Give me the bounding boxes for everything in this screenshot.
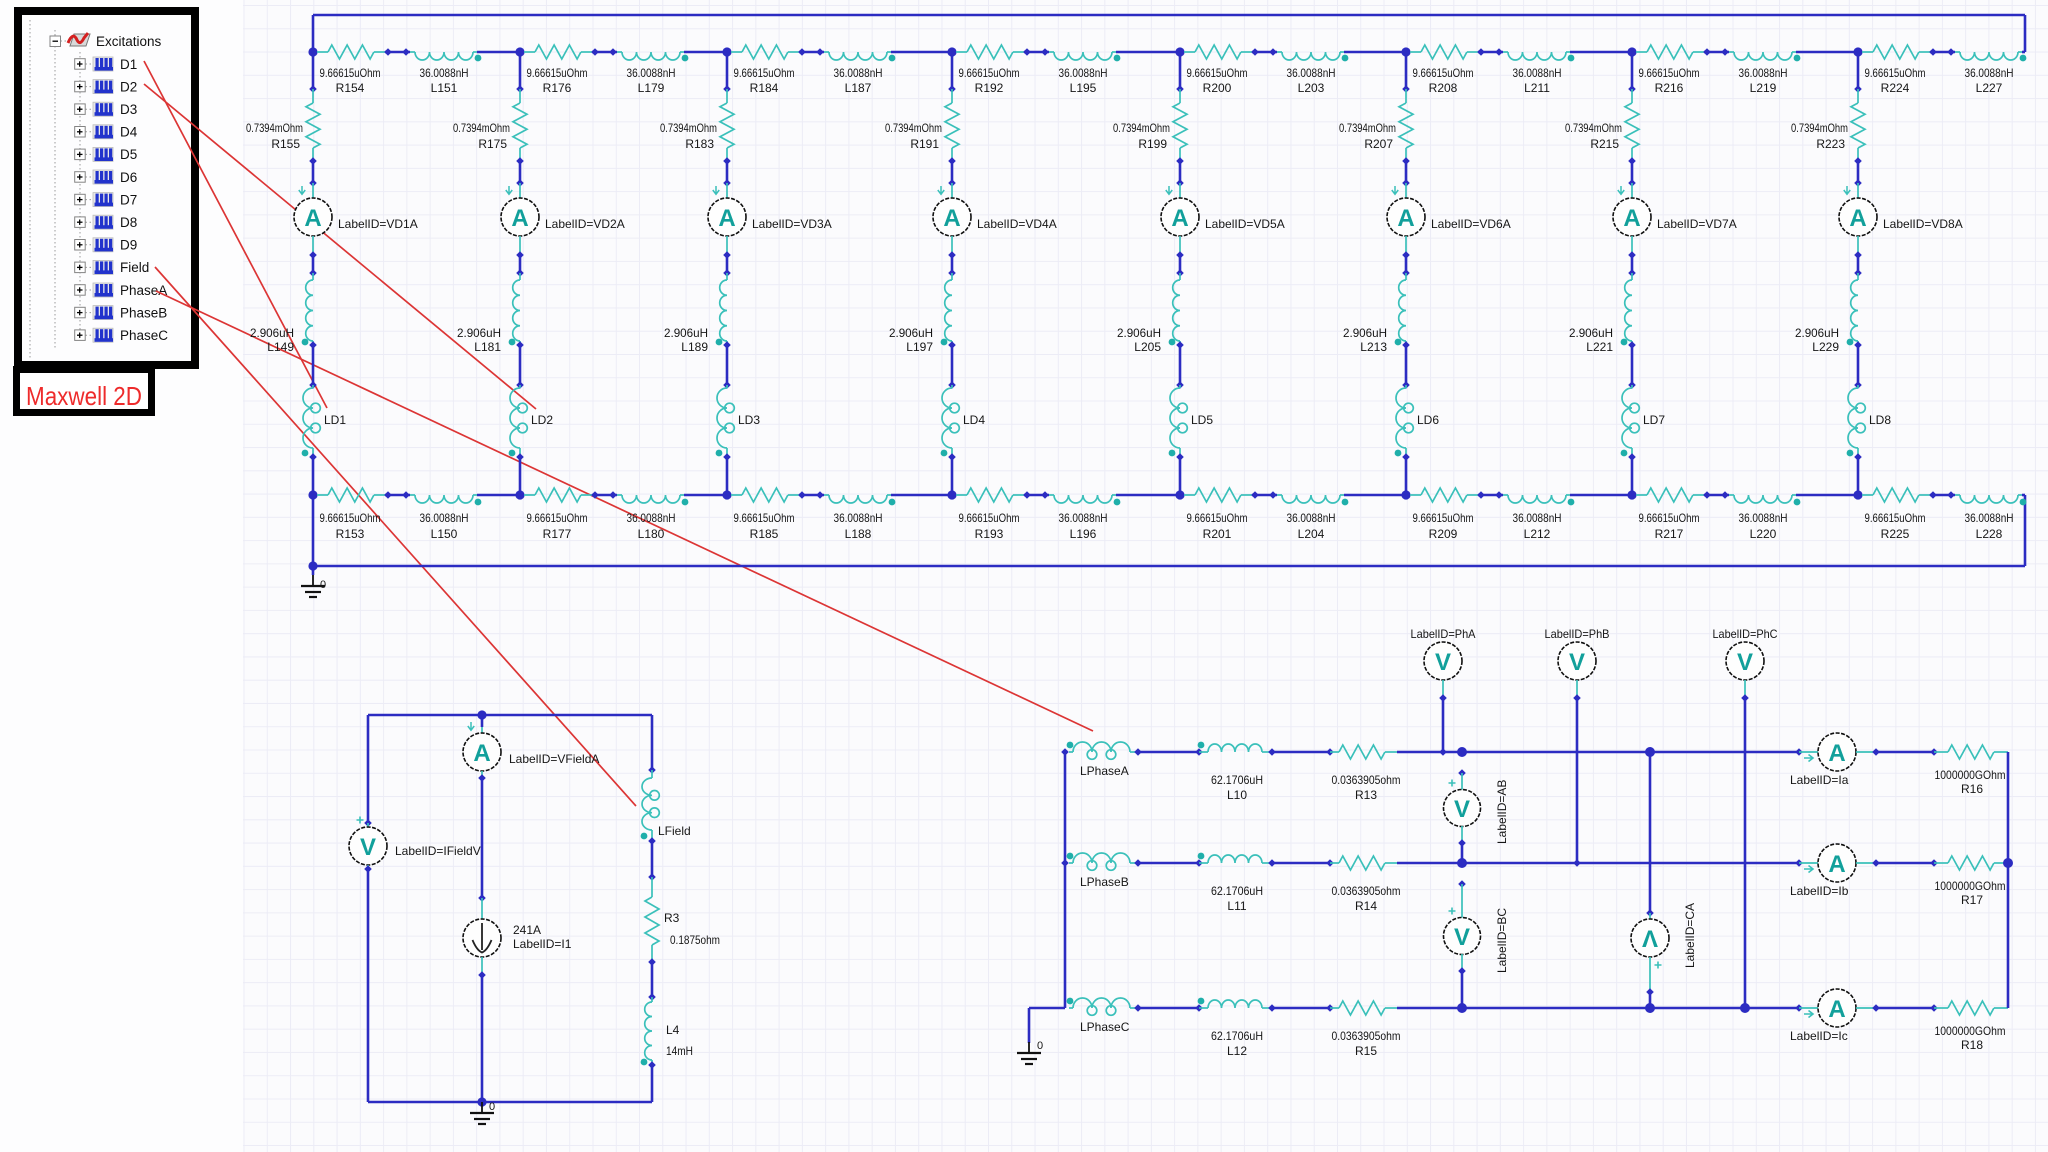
inductor L213 — [1399, 280, 1406, 341]
wire column 7 vertical upper — [1631, 52, 1634, 89]
resistor R18 — [1948, 1001, 1994, 1015]
svg-text:L212: L212 — [1524, 527, 1551, 541]
wire row LPhaseB segment 3 — [1397, 862, 1799, 865]
wire column 5 mid — [1176, 341, 1184, 349]
wire row LPhaseA segment 3 — [1397, 751, 1799, 754]
svg-text:LabelID=VD8A: LabelID=VD8A — [1883, 217, 1963, 231]
voltmeter CA — [1631, 919, 1669, 957]
svg-text:R3: R3 — [664, 911, 680, 925]
inductor LPhaseB — [1069, 862, 1073, 864]
svg-text:LabelID=PhB: LabelID=PhB — [1545, 627, 1610, 641]
svg-text:A: A — [1828, 740, 1845, 767]
wire column 6 vertical upper — [1405, 52, 1408, 89]
svg-text:D7: D7 — [120, 192, 137, 207]
ammeter VD6A — [1392, 186, 1398, 194]
svg-text:9.66615uOhm: 9.66615uOhm — [959, 66, 1020, 80]
resistor R3 0.1875ohm — [645, 897, 659, 945]
resistor R193 — [967, 488, 1013, 502]
wire bottom row col8 — [1862, 494, 1873, 496]
wire top row col1 — [317, 51, 328, 53]
svg-text:D9: D9 — [120, 238, 137, 253]
svg-text:LPhaseB: LPhaseB — [1080, 875, 1129, 889]
inductor LD8 — [1848, 388, 1858, 448]
wire row LPhaseB segment 2 — [1268, 859, 1276, 867]
resistor R177 — [535, 488, 581, 502]
resistor R192 — [967, 45, 1013, 59]
inductor L150 — [415, 495, 473, 503]
svg-text:D8: D8 — [120, 215, 137, 230]
wire column 3 lower — [726, 448, 728, 457]
svg-text:36.0088nH: 36.0088nH — [1739, 511, 1788, 525]
svg-text:LabelID=AB: LabelID=AB — [1495, 780, 1509, 844]
resistor R215 — [1625, 103, 1639, 148]
svg-text:R201: R201 — [1203, 527, 1232, 541]
resistor R175 — [513, 103, 527, 148]
tree item D3 — [75, 102, 138, 117]
ammeter VD8A — [1844, 186, 1850, 194]
ground 0 (top circuit) — [308, 561, 317, 570]
node CA top junction — [1645, 747, 1655, 757]
inductor L12 — [1199, 1007, 1208, 1009]
svg-text:PhaseA: PhaseA — [120, 283, 167, 298]
tree item Field — [75, 260, 150, 275]
svg-text:LabelID=VD3A: LabelID=VD3A — [752, 217, 832, 231]
svg-text:0.7394mOhm: 0.7394mOhm — [453, 121, 510, 135]
svg-text:LD1: LD1 — [324, 413, 346, 427]
svg-text:R183: R183 — [685, 137, 714, 151]
svg-text:L187: L187 — [845, 81, 872, 95]
svg-text:LabelID=Ic: LabelID=Ic — [1790, 1029, 1848, 1043]
wire column 6 below ammeter — [1405, 236, 1407, 255]
resistor R208 — [1421, 45, 1467, 59]
resistor R17 — [1948, 856, 1994, 870]
svg-text:L221: L221 — [1586, 340, 1613, 354]
svg-text:62.1706uH: 62.1706uH — [1211, 1029, 1263, 1043]
tree item D7 — [75, 192, 138, 207]
svg-text:1000000GOhm: 1000000GOhm — [1935, 1024, 2006, 1038]
svg-text:L188: L188 — [845, 527, 872, 541]
wire column 2 vertical upper — [519, 52, 522, 89]
svg-text:LabelID=VD7A: LabelID=VD7A — [1657, 217, 1737, 231]
svg-text:PhaseC: PhaseC — [120, 328, 168, 343]
tree guide lines — [29, 20, 31, 358]
svg-text:36.0088nH: 36.0088nH — [627, 511, 676, 525]
wire field center branch — [481, 771, 483, 776]
svg-text:2.906uH: 2.906uH — [1343, 326, 1387, 340]
svg-text:R154: R154 — [336, 81, 365, 95]
svg-text:L189: L189 — [681, 340, 708, 354]
svg-text:0.7394mOhm: 0.7394mOhm — [1113, 121, 1170, 135]
wire PhC vertical — [1744, 680, 1746, 696]
wire column 8 vertical upper — [1857, 52, 1860, 89]
node top junction col1 — [308, 47, 317, 56]
svg-text:LD8: LD8 — [1869, 413, 1891, 427]
svg-text:V: V — [1454, 924, 1470, 951]
inductor L220 — [1734, 495, 1792, 503]
svg-text:36.0088nH: 36.0088nH — [1059, 66, 1108, 80]
node top junction col2 — [515, 47, 524, 56]
svg-text:Maxwell 2D: Maxwell 2D — [26, 381, 142, 411]
svg-text:R184: R184 — [750, 81, 779, 95]
svg-text:LD7: LD7 — [1643, 413, 1665, 427]
wire three-phase left vertical — [1064, 752, 1067, 1008]
resistor R154 — [328, 45, 374, 59]
svg-text:R193: R193 — [975, 527, 1004, 541]
svg-text:2.906uH: 2.906uH — [1569, 326, 1613, 340]
svg-text:9.66615uOhm: 9.66615uOhm — [1413, 66, 1474, 80]
svg-text:D5: D5 — [120, 147, 137, 162]
resistor R185 — [742, 488, 788, 502]
inductor LD5 — [1170, 388, 1180, 448]
inductor L197 — [945, 280, 952, 341]
svg-text:L219: L219 — [1750, 81, 1777, 95]
wire to three-phase ground — [1029, 1007, 1065, 1010]
wire column 3 below ammeter — [726, 236, 728, 255]
svg-text:36.0088nH: 36.0088nH — [1513, 511, 1562, 525]
svg-text:D1: D1 — [120, 57, 137, 72]
wire column 3 mid — [723, 341, 731, 349]
svg-text:L205: L205 — [1134, 340, 1161, 354]
svg-text:LabelID=Ib: LabelID=Ib — [1790, 884, 1849, 898]
svg-text:2.906uH: 2.906uH — [1117, 326, 1161, 340]
wire top row col7 — [1636, 51, 1647, 53]
svg-text:0.7394mOhm: 0.7394mOhm — [246, 121, 303, 135]
resistor R183 — [720, 103, 734, 148]
svg-text:0.7394mOhm: 0.7394mOhm — [1565, 121, 1622, 135]
tree item D2 — [75, 79, 138, 94]
svg-text:0: 0 — [320, 579, 326, 591]
inductor L227 — [1960, 52, 2018, 60]
tree item PhaseB — [75, 305, 168, 320]
svg-text:L12: L12 — [1227, 1044, 1247, 1058]
wire row LPhaseC segment 3 — [1397, 1007, 1799, 1010]
wire column 8 lower — [1857, 448, 1859, 457]
wire column 8 mid — [1854, 341, 1862, 349]
node top junction col8 — [1853, 47, 1862, 56]
svg-text:R14: R14 — [1355, 899, 1377, 913]
svg-text:LabelID=VD5A: LabelID=VD5A — [1205, 217, 1285, 231]
inductor LD2 — [510, 388, 520, 448]
svg-text:9.66615uOhm: 9.66615uOhm — [1865, 511, 1926, 525]
tree item PhaseC — [75, 328, 169, 343]
svg-text:L4: L4 — [666, 1023, 680, 1037]
svg-text:LD2: LD2 — [531, 413, 553, 427]
svg-text:R16: R16 — [1961, 782, 1983, 796]
wire column 5 lower — [1179, 448, 1181, 457]
node bottom junction col7 — [1627, 490, 1636, 499]
svg-text:LD4: LD4 — [963, 413, 985, 427]
svg-text:D3: D3 — [120, 102, 137, 117]
wire CA to C row — [1649, 992, 1652, 1008]
svg-text:R215: R215 — [1590, 137, 1619, 151]
resistor R153 — [328, 488, 374, 502]
annotation line D2 to LD2 — [144, 84, 536, 409]
svg-text:0: 0 — [1037, 1040, 1043, 1052]
svg-text:LabelID=I1: LabelID=I1 — [513, 937, 572, 951]
svg-text:L196: L196 — [1070, 527, 1097, 541]
wire bottom row col7 — [1636, 494, 1647, 496]
svg-text:LD3: LD3 — [738, 413, 760, 427]
wire column 1 below ammeter — [312, 236, 314, 255]
wire row LPhaseC segment 4 — [1856, 1007, 1876, 1009]
svg-text:R217: R217 — [1655, 527, 1684, 541]
svg-text:LabelID=VD6A: LabelID=VD6A — [1431, 217, 1511, 231]
ammeter Ic — [1804, 1011, 1813, 1018]
wire row LPhaseB segment 4 — [1856, 862, 1876, 864]
svg-text:LabelID=VD1A: LabelID=VD1A — [338, 217, 418, 231]
wire bottom row col6 — [1410, 494, 1421, 496]
wire field circuit frame — [368, 714, 652, 717]
svg-text:LD5: LD5 — [1191, 413, 1213, 427]
tree panel border — [18, 11, 195, 365]
inductor L189 — [720, 280, 727, 341]
inductor L11 — [1199, 862, 1208, 864]
svg-text:V: V — [1569, 649, 1585, 676]
wire between R3 and L4 — [648, 958, 656, 966]
wire bottom row col1 — [317, 494, 328, 496]
svg-text:V: V — [1435, 649, 1451, 676]
svg-text:R175: R175 — [478, 137, 507, 151]
svg-text:1000000GOhm: 1000000GOhm — [1935, 768, 2006, 782]
svg-text:9.66615uOhm: 9.66615uOhm — [1639, 511, 1700, 525]
ammeter VD3A — [713, 186, 719, 194]
svg-text:A: A — [718, 205, 735, 232]
inductor LD4 — [942, 388, 952, 448]
wire PhB vertical — [1576, 680, 1578, 696]
svg-text:Λ: Λ — [1642, 926, 1658, 953]
wire row LPhaseA segment 4 — [1856, 751, 1876, 753]
svg-text:R216: R216 — [1655, 81, 1684, 95]
svg-text:V: V — [1454, 796, 1470, 823]
node bottom junction col3 — [722, 490, 731, 499]
svg-text:V: V — [1737, 649, 1753, 676]
resistor R13 — [1339, 745, 1385, 759]
svg-text:62.1706uH: 62.1706uH — [1211, 884, 1263, 898]
svg-text:LabelID=VD4A: LabelID=VD4A — [977, 217, 1057, 231]
wire row LPhaseA segment 1 — [1134, 748, 1142, 756]
resistor R209 — [1421, 488, 1467, 502]
inductor L187 — [829, 52, 887, 60]
svg-text:LabelID=IFieldV: LabelID=IFieldV — [395, 844, 481, 858]
wire column 4 lower — [951, 448, 953, 457]
svg-text:9.66615uOhm: 9.66615uOhm — [1639, 66, 1700, 80]
inductor L204 — [1282, 495, 1340, 503]
svg-text:L10: L10 — [1227, 788, 1247, 802]
ammeter VD5A — [1166, 186, 1172, 194]
wire column 8 below ammeter — [1857, 236, 1859, 255]
wire BC to C row — [1461, 971, 1464, 1008]
svg-text:36.0088nH: 36.0088nH — [1059, 511, 1108, 525]
node field bottom junction — [477, 1097, 486, 1106]
svg-text:LabelID=CA: LabelID=CA — [1683, 903, 1697, 968]
inductor L179 — [622, 52, 680, 60]
svg-text:R209: R209 — [1429, 527, 1458, 541]
svg-text:R224: R224 — [1881, 81, 1910, 95]
svg-text:36.0088nH: 36.0088nH — [1965, 511, 2014, 525]
wire PhA vertical — [1442, 680, 1444, 696]
svg-text:L227: L227 — [1976, 81, 2003, 95]
svg-text:D4: D4 — [120, 125, 138, 140]
wire column 5 below ammeter — [1179, 236, 1181, 255]
resistor R224 — [1873, 45, 1919, 59]
inductor L205 — [1173, 280, 1180, 341]
ammeter VD2A — [506, 186, 512, 194]
svg-text:36.0088nH: 36.0088nH — [627, 66, 676, 80]
ammeter VD1A — [299, 186, 305, 194]
inductor L219 — [1734, 52, 1792, 60]
svg-text:R185: R185 — [750, 527, 779, 541]
svg-text:A: A — [511, 205, 528, 232]
svg-text:R18: R18 — [1961, 1038, 1983, 1052]
wire top row col5 — [1184, 51, 1195, 53]
svg-text:R207: R207 — [1364, 137, 1393, 151]
svg-text:V: V — [360, 834, 376, 861]
svg-text:241A: 241A — [513, 923, 541, 937]
svg-text:L179: L179 — [638, 81, 665, 95]
resistor R207 — [1399, 103, 1413, 148]
inductor L228 — [1960, 495, 2018, 503]
svg-text:0.0363905ohm: 0.0363905ohm — [1332, 1029, 1401, 1043]
tree item Excitations — [50, 36, 61, 47]
wire column 6 lower — [1405, 448, 1407, 457]
svg-text:LabelID=BC: LabelID=BC — [1495, 908, 1509, 973]
resistor R217 — [1647, 488, 1693, 502]
inductor L211 — [1508, 52, 1566, 60]
svg-text:0.1875ohm: 0.1875ohm — [670, 933, 720, 947]
svg-text:R13: R13 — [1355, 788, 1377, 802]
current source I1 241A — [463, 919, 501, 957]
svg-text:62.1706uH: 62.1706uH — [1211, 773, 1263, 787]
inductor L180 — [622, 495, 680, 503]
svg-text:L220: L220 — [1750, 527, 1777, 541]
inductor L149 — [306, 280, 313, 341]
svg-text:L203: L203 — [1298, 81, 1325, 95]
inductor L212 — [1508, 495, 1566, 503]
svg-text:Field: Field — [120, 260, 149, 275]
annotation line Field to LField — [155, 267, 636, 806]
svg-text:R199: R199 — [1138, 137, 1167, 151]
svg-text:0.7394mOhm: 0.7394mOhm — [1339, 121, 1396, 135]
ammeter Ib — [1804, 866, 1813, 873]
wire top row col4 — [956, 51, 967, 53]
wire below current source — [481, 957, 483, 973]
wire column 7 below ammeter — [1631, 236, 1633, 255]
inductor LD7 — [1622, 388, 1632, 448]
svg-text:9.66615uOhm: 9.66615uOhm — [959, 511, 1020, 525]
inductor L221 — [1625, 280, 1632, 341]
tree item PhaseA — [75, 283, 168, 298]
svg-text:9.66615uOhm: 9.66615uOhm — [734, 66, 795, 80]
svg-text:L204: L204 — [1298, 527, 1325, 541]
svg-text:14mH: 14mH — [666, 1044, 693, 1058]
svg-text:R15: R15 — [1355, 1044, 1377, 1058]
wire bottom row col5 — [1184, 494, 1195, 496]
svg-text:9.66615uOhm: 9.66615uOhm — [320, 66, 381, 80]
inductor LField — [648, 766, 656, 774]
svg-text:R153: R153 — [336, 527, 365, 541]
svg-text:A: A — [1397, 205, 1414, 232]
svg-text:L11: L11 — [1227, 899, 1246, 913]
voltmeter BC — [1458, 880, 1466, 888]
svg-text:LabelID=PhA: LabelID=PhA — [1411, 627, 1476, 641]
svg-text:0.7394mOhm: 0.7394mOhm — [885, 121, 942, 135]
inductor L203 — [1282, 52, 1340, 60]
wire column 4 below ammeter — [951, 236, 953, 255]
inductor L196 — [1054, 495, 1112, 503]
wire top row col3 — [731, 51, 742, 53]
ground 0 (three-phase) — [1028, 1042, 1030, 1053]
resistor R216 — [1647, 45, 1693, 59]
svg-text:36.0088nH: 36.0088nH — [420, 66, 469, 80]
svg-text:R155: R155 — [271, 137, 300, 151]
wire column 1 lower — [312, 448, 314, 457]
svg-text:2.906uH: 2.906uH — [250, 326, 294, 340]
svg-text:LField: LField — [658, 824, 691, 838]
wire row LPhaseA segment 2 — [1268, 748, 1276, 756]
resistor R155 — [306, 103, 320, 148]
wire top row col2 — [524, 51, 535, 53]
wire column 7 mid — [1628, 341, 1636, 349]
resistor R199 — [1173, 103, 1187, 148]
svg-text:L181: L181 — [474, 340, 501, 354]
svg-text:D2: D2 — [120, 79, 137, 94]
resistor R14 — [1339, 856, 1385, 870]
node bottom junction col8 — [1853, 490, 1862, 499]
svg-text:LPhaseC: LPhaseC — [1080, 1020, 1130, 1034]
resistor R201 — [1195, 488, 1241, 502]
svg-text:9.66615uOhm: 9.66615uOhm — [527, 66, 588, 80]
resistor R184 — [742, 45, 788, 59]
ammeter VD4A — [938, 186, 944, 194]
svg-text:0: 0 — [489, 1101, 495, 1113]
wire column 7 lower — [1631, 448, 1633, 457]
tree item D8 — [75, 215, 138, 230]
svg-text:LabelID=PhC: LabelID=PhC — [1713, 627, 1778, 641]
svg-text:0.7394mOhm: 0.7394mOhm — [1791, 121, 1848, 135]
svg-text:36.0088nH: 36.0088nH — [834, 511, 883, 525]
node bottom junction col2 — [515, 490, 524, 499]
voltmeter IFieldV — [364, 819, 372, 827]
wire column 3 vertical upper — [726, 52, 729, 89]
wire AB to B row — [1461, 843, 1464, 863]
node AB top junction — [1457, 747, 1467, 757]
svg-text:36.0088nH: 36.0088nH — [1739, 66, 1788, 80]
svg-text:A: A — [1828, 996, 1845, 1023]
svg-text:2.906uH: 2.906uH — [457, 326, 501, 340]
node bottom junction col1 — [308, 490, 317, 499]
Maxwell 2D label box — [17, 370, 152, 413]
wire top rail — [313, 14, 2025, 17]
wire bottom row col2 — [524, 494, 535, 496]
inductor L188 — [829, 495, 887, 503]
svg-text:2.906uH: 2.906uH — [889, 326, 933, 340]
wire CA vertical — [1649, 752, 1652, 913]
svg-text:2.906uH: 2.906uH — [664, 326, 708, 340]
wire bottom row col3 — [731, 494, 742, 496]
svg-text:36.0088nH: 36.0088nH — [420, 511, 469, 525]
svg-text:R200: R200 — [1203, 81, 1232, 95]
wire bottom return rail — [312, 495, 315, 566]
svg-text:L150: L150 — [431, 527, 458, 541]
inductor LD1 — [303, 388, 313, 448]
wire column 1 vertical upper — [312, 52, 315, 89]
tree item D1 — [75, 57, 138, 72]
wire column 5 vertical upper — [1179, 52, 1182, 89]
inductor LPhaseA — [1069, 751, 1073, 753]
svg-text:36.0088nH: 36.0088nH — [1513, 66, 1562, 80]
inductor LD6 — [1396, 388, 1406, 448]
node bottom junction col6 — [1401, 490, 1410, 499]
